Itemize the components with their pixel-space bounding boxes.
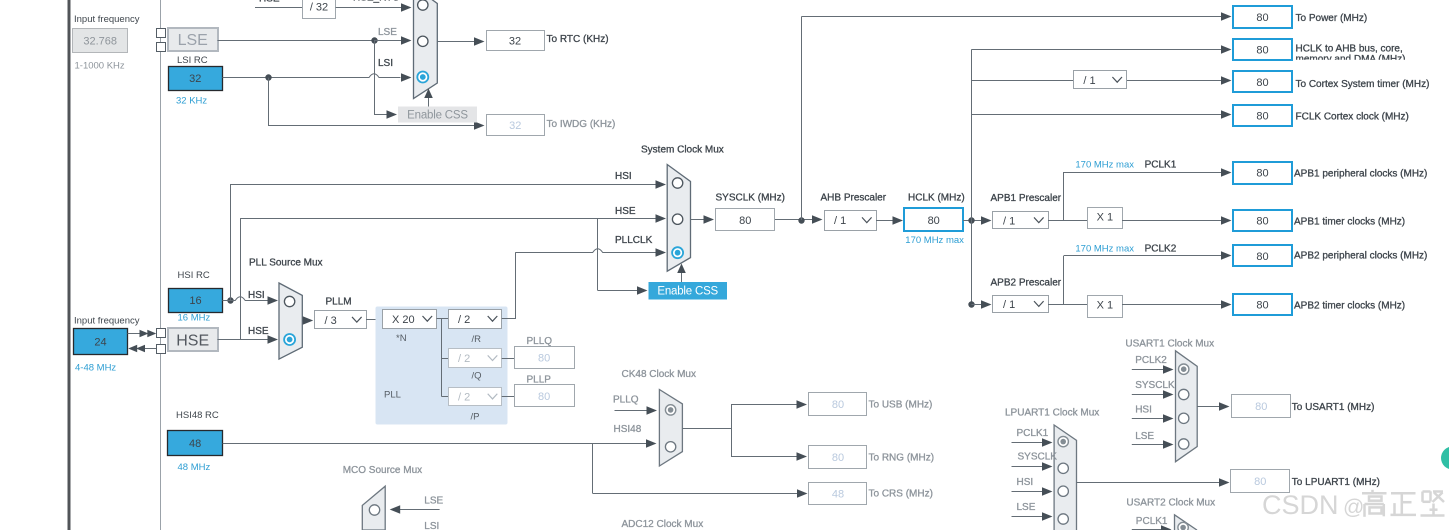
svg-text:HSI48 RC: HSI48 RC [176, 410, 219, 421]
svg-text:X 1: X 1 [1097, 300, 1114, 312]
svg-text:SYSCLK: SYSCLK [1135, 380, 1175, 391]
svg-text:PCLK1: PCLK1 [1017, 428, 1049, 439]
svg-text:PLLP: PLLP [527, 375, 552, 386]
svg-text:HSI: HSI [248, 290, 265, 301]
svg-text:PLLQ: PLLQ [527, 336, 553, 347]
svg-text:HSE_RTC: HSE_RTC [353, 0, 400, 4]
svg-text:/ 2: / 2 [458, 353, 470, 365]
svg-text:/ 1: / 1 [1003, 215, 1015, 227]
svg-text:/ 1: / 1 [834, 215, 846, 227]
svg-text:32: 32 [189, 73, 201, 85]
svg-text:/ 3: / 3 [325, 315, 337, 327]
svg-text:To USART1 (MHz): To USART1 (MHz) [1292, 402, 1375, 413]
svg-text:80: 80 [1256, 45, 1268, 57]
svg-text:32.768: 32.768 [83, 36, 117, 48]
svg-text:80: 80 [1256, 12, 1268, 24]
svg-text:APB1 timer clocks (MHz): APB1 timer clocks (MHz) [1294, 216, 1405, 227]
svg-text:APB1 Prescaler: APB1 Prescaler [991, 193, 1062, 204]
svg-text:80: 80 [832, 452, 844, 464]
svg-text:LSE: LSE [178, 32, 208, 49]
svg-text:To USB (MHz): To USB (MHz) [869, 399, 933, 410]
svg-text:PLLCLK: PLLCLK [615, 235, 653, 246]
svg-text:80: 80 [1256, 77, 1268, 89]
svg-text:170 MHz max: 170 MHz max [905, 235, 964, 246]
svg-text:APB2 timer clocks (MHz): APB2 timer clocks (MHz) [1294, 301, 1405, 312]
svg-text:To IWDG (KHz): To IWDG (KHz) [547, 119, 616, 130]
svg-text:170 MHz max: 170 MHz max [1075, 160, 1134, 171]
svg-text:/ 1: / 1 [1003, 299, 1015, 311]
svg-text:80: 80 [1256, 299, 1268, 311]
svg-text:HCLK (MHz): HCLK (MHz) [908, 193, 965, 204]
svg-text:To RTC (KHz): To RTC (KHz) [547, 34, 609, 45]
svg-text:Enable CSS: Enable CSS [657, 286, 718, 298]
svg-text:HSI: HSI [1017, 477, 1034, 488]
svg-text:PLLM: PLLM [326, 297, 352, 308]
svg-text:CSDN: CSDN [1262, 490, 1339, 520]
svg-text:80: 80 [832, 399, 844, 411]
svg-text:USART2 Clock Mux: USART2 Clock Mux [1126, 497, 1215, 508]
svg-text:80: 80 [1256, 168, 1268, 180]
svg-text:/ 1: / 1 [1083, 75, 1095, 87]
svg-text:PCLK1: PCLK1 [1136, 516, 1168, 527]
svg-text:HSI RC: HSI RC [178, 270, 210, 281]
svg-text:/ 32: / 32 [310, 2, 328, 14]
svg-text:80: 80 [928, 215, 940, 227]
svg-text:80: 80 [538, 352, 550, 364]
svg-text:/ 2: / 2 [458, 392, 470, 404]
svg-text:PCLK2: PCLK2 [1145, 244, 1177, 255]
svg-text:X 20: X 20 [392, 314, 415, 326]
svg-text:ADC12 Clock Mux: ADC12 Clock Mux [622, 519, 704, 530]
svg-text:*N: *N [396, 333, 407, 344]
svg-text:HSE: HSE [176, 333, 209, 350]
svg-text:To LPUART1 (MHz): To LPUART1 (MHz) [1292, 477, 1380, 488]
svg-text:System Clock Mux: System Clock Mux [641, 145, 724, 156]
svg-text:/ 2: / 2 [458, 314, 470, 326]
svg-text:24: 24 [94, 337, 106, 349]
svg-text:@: @ [1343, 496, 1364, 519]
svg-text:HSI48: HSI48 [614, 424, 642, 435]
svg-text:LSI: LSI [424, 521, 439, 530]
svg-text:16 MHz: 16 MHz [178, 313, 211, 324]
svg-text:80: 80 [1256, 111, 1268, 123]
svg-text:APB2 peripheral clocks (MHz): APB2 peripheral clocks (MHz) [1294, 251, 1427, 262]
svg-text:To Power (MHz): To Power (MHz) [1296, 13, 1368, 24]
svg-text:/Q: /Q [472, 371, 482, 382]
svg-text:To CRS (MHz): To CRS (MHz) [869, 489, 933, 500]
svg-text:HSE: HSE [248, 326, 269, 337]
svg-text:48 MHz: 48 MHz [178, 462, 211, 473]
svg-text:HSE: HSE [259, 0, 280, 5]
svg-text:1-1000 KHz: 1-1000 KHz [75, 61, 125, 72]
svg-text:/R: /R [472, 334, 482, 345]
svg-text:PLL Source Mux: PLL Source Mux [249, 258, 323, 269]
svg-text:32: 32 [509, 36, 521, 48]
svg-text:SYSCLK (MHz): SYSCLK (MHz) [716, 193, 785, 204]
svg-text:Enable CSS: Enable CSS [407, 110, 468, 122]
svg-text:PCLK1: PCLK1 [1145, 160, 1177, 171]
svg-text:48: 48 [189, 438, 201, 450]
svg-text:Input frequency: Input frequency [74, 14, 140, 25]
svg-text:/P: /P [471, 412, 480, 423]
svg-text:PLL: PLL [384, 390, 401, 401]
svg-text:170 MHz max: 170 MHz max [1075, 244, 1134, 255]
svg-text:32 KHz: 32 KHz [176, 96, 207, 107]
svg-text:80: 80 [1254, 476, 1266, 488]
svg-text:LPUART1 Clock Mux: LPUART1 Clock Mux [1005, 408, 1099, 419]
svg-text:HSE: HSE [615, 206, 636, 217]
svg-text:APB1 peripheral clocks (MHz): APB1 peripheral clocks (MHz) [1294, 169, 1427, 180]
svg-text:32: 32 [509, 120, 521, 132]
svg-text:AHB Prescaler: AHB Prescaler [821, 193, 887, 204]
svg-text:APB2 Prescaler: APB2 Prescaler [991, 277, 1062, 288]
svg-text:To RNG (MHz): To RNG (MHz) [869, 453, 935, 464]
svg-text:48: 48 [832, 488, 844, 500]
svg-text:To Cortex System timer (MHz): To Cortex System timer (MHz) [1296, 79, 1430, 90]
svg-text:LSE: LSE [424, 496, 443, 507]
svg-text:MCO Source Mux: MCO Source Mux [343, 465, 422, 476]
svg-text:PLLQ: PLLQ [613, 395, 639, 406]
svg-text:USART1 Clock Mux: USART1 Clock Mux [1125, 339, 1214, 350]
svg-text:HSI: HSI [1135, 405, 1152, 416]
svg-text:16: 16 [189, 295, 201, 307]
svg-text:LSI: LSI [378, 58, 393, 69]
svg-text:80: 80 [1256, 215, 1268, 227]
svg-text:80: 80 [1256, 251, 1268, 263]
svg-text:LSE: LSE [1017, 502, 1036, 513]
svg-text:X 1: X 1 [1097, 212, 1114, 224]
svg-text:SYSCLK: SYSCLK [1018, 452, 1058, 463]
svg-text:HSI: HSI [615, 171, 632, 182]
svg-text:80: 80 [538, 391, 550, 403]
svg-text:LSE: LSE [378, 27, 397, 38]
svg-text:80: 80 [1255, 401, 1267, 413]
svg-text:PCLK2: PCLK2 [1135, 355, 1167, 366]
svg-text:CK48 Clock Mux: CK48 Clock Mux [622, 369, 696, 380]
svg-text:HCLK to AHB bus, core,: HCLK to AHB bus, core, [1296, 44, 1403, 55]
svg-text:Input frequency: Input frequency [74, 316, 140, 327]
svg-text:80: 80 [739, 215, 751, 227]
svg-text:LSI RC: LSI RC [177, 55, 208, 66]
svg-text:4-48 MHz: 4-48 MHz [75, 363, 116, 374]
svg-text:FCLK Cortex clock (MHz): FCLK Cortex clock (MHz) [1296, 112, 1409, 123]
svg-text:LSE: LSE [1135, 431, 1154, 442]
